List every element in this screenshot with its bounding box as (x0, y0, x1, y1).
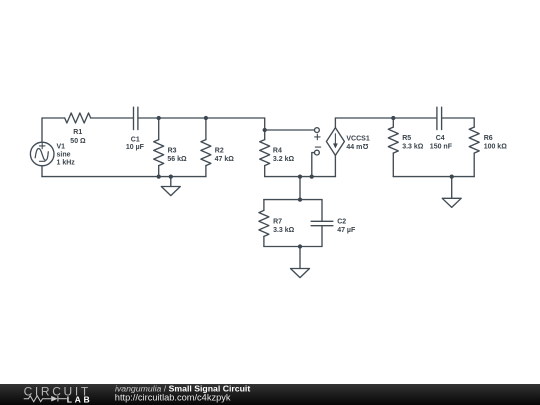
svg-text:R1: R1 (73, 129, 82, 136)
svg-text:50 Ω: 50 Ω (70, 138, 86, 145)
svg-text:R7: R7 (273, 218, 282, 225)
svg-text:R6: R6 (484, 135, 493, 142)
svg-text:3.3 kΩ: 3.3 kΩ (402, 144, 424, 151)
svg-text:10 µF: 10 µF (126, 144, 145, 151)
svg-text:150 nF: 150 nF (430, 144, 453, 151)
svg-text:R4: R4 (273, 148, 282, 155)
svg-text:56 kΩ: 56 kΩ (167, 156, 187, 163)
svg-text:R3: R3 (168, 148, 177, 155)
svg-text:1 kHz: 1 kHz (57, 159, 76, 166)
svg-text:47 µF: 47 µF (337, 227, 356, 234)
svg-text:VCCS1: VCCS1 (346, 136, 369, 143)
svg-text:3.2 kΩ: 3.2 kΩ (273, 156, 295, 163)
svg-text:LAB: LAB (67, 395, 92, 405)
svg-text:3.3 kΩ: 3.3 kΩ (273, 227, 295, 234)
svg-text:100 kΩ: 100 kΩ (484, 144, 508, 151)
svg-text:Ω: Ω (362, 142, 368, 149)
svg-text:44 m: 44 m (346, 144, 362, 151)
svg-text:47 kΩ: 47 kΩ (215, 156, 235, 163)
svg-text:http://circuitlab.com/c4kzpyk: http://circuitlab.com/c4kzpyk (115, 392, 231, 402)
svg-text:R5: R5 (402, 135, 411, 142)
svg-text:V1: V1 (57, 144, 66, 151)
svg-text:R2: R2 (215, 148, 224, 155)
svg-text:C2: C2 (337, 218, 346, 225)
svg-text:sine: sine (57, 152, 71, 159)
svg-text:C4: C4 (436, 135, 445, 142)
svg-text:C1: C1 (131, 137, 140, 144)
